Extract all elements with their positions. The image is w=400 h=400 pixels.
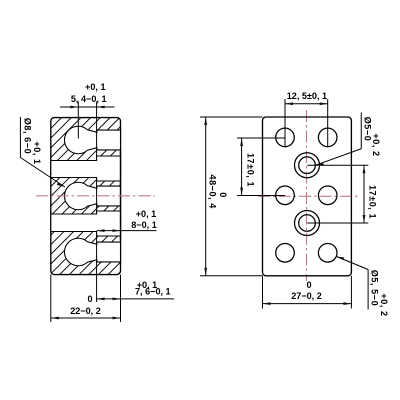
svg-text:Ø5−0: Ø5−0	[363, 117, 373, 142]
svg-text:+0, 2: +0, 2	[379, 293, 389, 316]
svg-text:+0, 1: +0, 1	[85, 82, 105, 92]
svg-text:Ø8, 6−0: Ø8, 6−0	[23, 118, 33, 154]
svg-text:22−0, 2: 22−0, 2	[70, 306, 101, 316]
svg-text:7, 6−0, 1: 7, 6−0, 1	[135, 287, 171, 297]
svg-text:8−0, 1: 8−0, 1	[131, 220, 157, 230]
svg-text:0: 0	[87, 294, 92, 304]
svg-text:0: 0	[306, 280, 311, 290]
svg-text:Ø5, 5−0: Ø5, 5−0	[370, 270, 380, 306]
svg-text:+0, 2: +0, 2	[371, 133, 381, 156]
svg-text:17±0, 1: 17±0, 1	[368, 185, 378, 219]
svg-text:48−0, 4: 48−0, 4	[208, 174, 218, 209]
svg-text:5, 4−0, 1: 5, 4−0, 1	[71, 94, 107, 104]
svg-text:27−0, 2: 27−0, 2	[291, 291, 322, 301]
svg-text:17±0, 1: 17±0, 1	[246, 153, 256, 187]
svg-text:12, 5±0, 1: 12, 5±0, 1	[287, 91, 327, 101]
svg-text:0: 0	[218, 192, 228, 198]
svg-text:+0, 1: +0, 1	[32, 141, 42, 164]
svg-text:+0, 1: +0, 1	[136, 209, 156, 219]
